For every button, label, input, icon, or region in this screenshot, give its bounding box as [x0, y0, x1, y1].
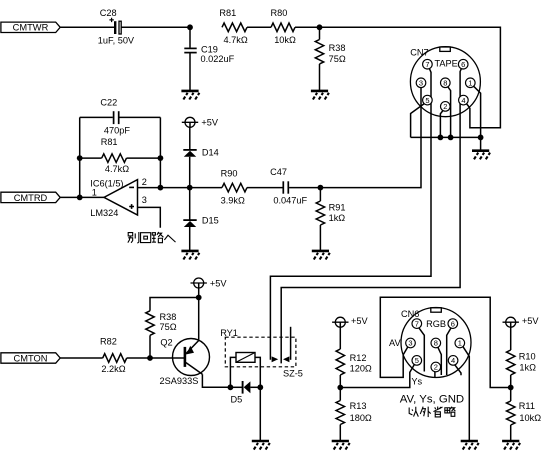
wire C28 to node A — [121, 26, 190, 28]
wire coil right lead — [255, 357, 260, 387]
capacitor C28 — [109, 18, 121, 34]
svg-text:3: 3 — [419, 79, 423, 88]
net tag CMTRD — [1, 192, 60, 202]
wire R90 to C47 — [247, 187, 283, 189]
svg-text:R80: R80 — [271, 8, 288, 18]
svg-text:R81: R81 — [219, 8, 236, 18]
svg-text:10kΩ: 10kΩ — [519, 413, 541, 423]
resistor R11 — [507, 401, 515, 425]
node +5V rail junction — [196, 295, 202, 301]
wire CN7 pin6 to relay contact B — [281, 68, 462, 364]
relay contact arrow C — [283, 356, 289, 362]
svg-text:CN7: CN7 — [410, 48, 428, 58]
svg-text:RGB: RGB — [426, 319, 446, 329]
junction pin8 bus — [448, 135, 454, 141]
wire CN6 pin7 stub — [418, 327, 424, 371]
svg-text:2.2kΩ: 2.2kΩ — [101, 364, 125, 374]
svg-text:C28: C28 — [100, 8, 117, 18]
svg-text:CMTON: CMTON — [14, 353, 48, 363]
svg-text:R91: R91 — [329, 203, 346, 213]
wire CN6 pin2 stub — [434, 371, 436, 378]
CN7 pin 2 — [441, 102, 451, 112]
svg-text:R38: R38 — [160, 312, 177, 322]
junction pin1 bus — [478, 135, 484, 141]
wire R13 to ground — [339, 425, 341, 442]
resistor R12 — [336, 349, 344, 375]
svg-text:R12: R12 — [350, 353, 367, 363]
wire C22 right to feedback — [120, 116, 161, 118]
svg-text:8: 8 — [434, 339, 438, 348]
CN6 pin 3 — [406, 338, 416, 348]
wire AV route box — [380, 297, 510, 387]
wire +5V symbol down — [198, 288, 200, 298]
wire CN7 pin2 to bus — [440, 110, 443, 138]
resistor R81 feedback — [102, 154, 127, 163]
svg-text:AV: AV — [389, 338, 401, 348]
svg-text:D5: D5 — [231, 394, 243, 404]
wire AV diagonal to pin3 — [403, 346, 408, 355]
power +5V symbol R10 — [503, 317, 519, 328]
svg-text:CMTWR: CMTWR — [13, 23, 49, 33]
svg-text:2: 2 — [443, 102, 447, 111]
op-amp U1 IC6(1/5) LM324 — [104, 180, 138, 215]
wire CN7 pin8 to bus — [447, 86, 450, 137]
svg-text:C47: C47 — [270, 167, 287, 177]
svg-text:R13: R13 — [350, 401, 367, 411]
wire R38 to ground — [319, 64, 321, 91]
wire CN7 pin4 stub — [466, 103, 470, 108]
svg-text:+5V: +5V — [210, 278, 227, 288]
CN6 pin 4 — [448, 356, 458, 366]
svg-text:7: 7 — [425, 60, 429, 69]
svg-text:470pF: 470pF — [104, 126, 130, 136]
svg-text:AV, Ys, GND: AV, Ys, GND — [400, 393, 464, 405]
wire CMTRD to op-amp output — [60, 196, 104, 198]
svg-text:1kΩ: 1kΩ — [329, 213, 346, 223]
node B junction — [317, 24, 323, 30]
capacitor C19 — [184, 48, 196, 52]
CN7 pin 4 — [459, 95, 469, 105]
node D5 right — [257, 384, 263, 390]
wire feedback left vertical — [79, 117, 81, 197]
svg-text:RY1: RY1 — [220, 328, 238, 338]
wire CN7 pin5 to bus — [411, 103, 426, 137]
CN7 pin 3 — [416, 78, 426, 88]
wire Ys route — [340, 364, 414, 387]
node D junction R91 — [318, 185, 324, 191]
wire CMTON to R82 — [60, 357, 102, 359]
resistor R38 bottom — [146, 311, 154, 335]
wire +5V to D14 — [189, 127, 191, 150]
svg-text:10kΩ: 10kΩ — [274, 35, 296, 45]
resistor R38 top — [315, 40, 323, 64]
node pin2 feedback junction — [158, 185, 164, 191]
svg-text:180Ω: 180Ω — [350, 413, 372, 423]
wire R80 to node B — [295, 26, 320, 28]
CN7 pin 7 — [423, 59, 433, 69]
wire R81-R80 — [247, 26, 271, 28]
resistor R80 — [271, 23, 295, 32]
resistor R91 — [316, 201, 324, 225]
svg-text:1: 1 — [458, 339, 462, 348]
net tag CMTON — [1, 353, 60, 363]
wire relay contact C stub — [290, 327, 292, 360]
svg-text:D14: D14 — [202, 147, 219, 157]
label igai shouryaku (others omitted) — [409, 407, 418, 417]
ground under C19 — [181, 91, 199, 100]
CN7 pin 8 — [441, 78, 451, 88]
connector CN7 notch — [440, 47, 451, 51]
wire +5V to R12 — [339, 327, 341, 349]
relay contact arrow A — [272, 356, 279, 362]
ground under D5 — [252, 441, 270, 450]
wire base node to R38b — [149, 335, 151, 358]
svg-text:CMTRD: CMTRD — [14, 193, 48, 203]
svg-text:+5V: +5V — [351, 316, 368, 326]
wire R10 to R11 — [510, 375, 512, 401]
diode D14 — [183, 149, 196, 151]
ground under R11 — [502, 441, 520, 450]
ground under D15 — [181, 251, 199, 260]
svg-text:R90: R90 — [221, 168, 238, 178]
svg-text:5: 5 — [415, 356, 419, 365]
svg-text:1: 1 — [468, 79, 472, 88]
svg-text:+5V: +5V — [522, 316, 539, 326]
ground under R38 top — [311, 91, 329, 100]
wire C19 to ground — [189, 53, 191, 91]
svg-text:R82: R82 — [100, 336, 117, 346]
svg-text:LM324: LM324 — [90, 208, 118, 218]
wire R38b to +5V rail — [150, 298, 199, 311]
node Ys divider — [337, 385, 343, 391]
wire node C to D15 — [189, 188, 191, 221]
resistor R13 — [336, 401, 344, 425]
svg-text:R38: R38 — [329, 43, 346, 53]
CN6 pin 6 — [448, 319, 458, 329]
svg-text:4: 4 — [451, 356, 455, 365]
CN7 pin 6 — [458, 59, 468, 69]
wire node D to R91 — [319, 188, 321, 201]
wire CN7 pin1 to bus — [473, 85, 481, 137]
svg-text:2SA933S: 2SA933S — [160, 376, 199, 386]
node base junction — [147, 355, 153, 361]
wire collector to D5 row — [202, 374, 230, 387]
wire CN6 pin1 to ground — [463, 347, 469, 441]
wire CN7 pin7 to relay contact A — [270, 68, 431, 360]
svg-text:4.7kΩ: 4.7kΩ — [105, 164, 129, 174]
CN7 pin 5 — [423, 95, 433, 105]
wire to R81 feedback — [80, 157, 102, 159]
resistor R10 — [507, 350, 515, 375]
wire +5V to R10 — [510, 327, 512, 350]
node C diode junction — [187, 185, 193, 191]
svg-text:0.047uF: 0.047uF — [273, 196, 307, 206]
svg-text:75Ω: 75Ω — [160, 322, 177, 332]
svg-text:TAPE: TAPE — [435, 58, 458, 68]
label betsukairo (to other circuit) — [128, 232, 139, 243]
junction pin2 bus — [438, 135, 444, 141]
svg-text:4: 4 — [461, 96, 465, 105]
svg-text:0.022uF: 0.022uF — [201, 54, 235, 64]
wire CN6 pin4 stub — [455, 364, 462, 375]
connector CN6 body — [401, 308, 471, 378]
capacitor C47 — [283, 181, 288, 193]
node feedback right R81 — [158, 155, 164, 161]
svg-text:Ys: Ys — [411, 376, 422, 386]
wire feedback right vertical — [159, 117, 161, 187]
diode D5 — [243, 381, 251, 394]
svg-text:D15: D15 — [202, 215, 219, 225]
wire CN7 ground bus — [411, 136, 481, 138]
svg-text:1: 1 — [92, 187, 97, 197]
wire R12 to R13 — [339, 375, 341, 401]
wire op-amp pin2 line — [138, 187, 223, 189]
wire to D5 cathode — [230, 386, 242, 388]
ground under R91 — [312, 251, 330, 260]
CN6 pin 7 — [412, 319, 422, 329]
wire R81 feedback right — [127, 157, 161, 159]
svg-text:R10: R10 — [519, 352, 536, 362]
wire node B to CN7 pin4 route — [320, 27, 501, 127]
svg-text:Q2: Q2 — [160, 337, 172, 347]
svg-text:120Ω: 120Ω — [350, 363, 372, 373]
node D5 left — [228, 384, 234, 390]
transistor Q2 2SA933S — [173, 339, 210, 376]
power +5V symbol op-amp — [182, 117, 198, 128]
svg-text:75Ω: 75Ω — [329, 54, 346, 64]
diode D15 — [183, 219, 196, 221]
ground under CN6 — [461, 441, 479, 450]
svg-text:3: 3 — [142, 195, 147, 205]
wire bus to ground — [480, 137, 482, 150]
resistor R81 top — [222, 23, 247, 32]
relay RY1 dashed box — [225, 337, 296, 367]
node A junction — [187, 24, 193, 30]
svg-text:2: 2 — [142, 177, 147, 187]
node feedback left R81 — [77, 155, 83, 161]
CN6 pin 5 — [412, 356, 422, 366]
svg-text:2: 2 — [434, 363, 438, 372]
CN6 pin 1 — [455, 338, 465, 348]
svg-text:5: 5 — [425, 96, 429, 105]
wire coil left lead — [230, 357, 236, 387]
relay coil — [236, 353, 255, 363]
wire node A down to C19 — [189, 27, 191, 47]
resistor R82 — [103, 354, 127, 363]
wire node B to R38 — [319, 27, 321, 39]
svg-text:4.7kΩ: 4.7kΩ — [224, 35, 248, 45]
net tag CMTWR — [1, 22, 60, 32]
svg-text:CN6: CN6 — [401, 309, 419, 319]
svg-text:+5V: +5V — [201, 118, 218, 128]
svg-text:R81: R81 — [101, 137, 118, 147]
svg-text:8: 8 — [443, 79, 447, 88]
wire emitter vertical — [198, 298, 200, 341]
CN7 pin 1 — [466, 78, 476, 88]
wire CMTWR to C28 — [60, 26, 114, 28]
svg-text:6: 6 — [461, 60, 465, 69]
power +5V symbol R12 — [332, 317, 348, 328]
svg-text:C22: C22 — [100, 97, 117, 107]
wire R11 to ground — [510, 425, 512, 441]
wire op-amp pin3 line — [138, 207, 161, 227]
ground under R13 — [332, 441, 350, 450]
svg-text:SZ-5: SZ-5 — [283, 369, 303, 379]
capacitor C22 — [114, 111, 119, 124]
wire R91 to ground — [319, 225, 321, 251]
svg-text:1uF, 50V: 1uF, 50V — [98, 35, 135, 45]
connector CN7 body — [410, 47, 480, 117]
svg-text:6: 6 — [451, 319, 455, 328]
resistor R90 — [222, 183, 247, 192]
CN6 pin 8 — [431, 338, 441, 348]
svg-text:C19: C19 — [201, 44, 218, 54]
wire D5 node to ground — [259, 387, 261, 441]
wire CN6 pin8 stub — [437, 346, 441, 375]
wire node D to CN7 pin3 — [320, 86, 421, 187]
wire R82 to Q2 base — [127, 357, 185, 359]
wire D15 to ground — [189, 227, 191, 251]
wire D5 anode to node — [250, 386, 260, 388]
ground under CN7 — [472, 151, 490, 160]
svg-text:7: 7 — [415, 319, 419, 328]
svg-text:3.9kΩ: 3.9kΩ — [221, 195, 245, 205]
power +5V symbol Q2 — [191, 278, 207, 289]
wire C47 to node D — [289, 187, 320, 189]
wire D14 to node C — [189, 157, 191, 188]
wire CN6 pin6 stub — [447, 327, 452, 375]
wire to C22 left — [80, 116, 113, 118]
node AV divider — [508, 385, 514, 391]
svg-text:R11: R11 — [519, 401, 535, 411]
CN6 pin 2 — [431, 362, 441, 372]
node output junction — [77, 195, 83, 201]
connector CN6 notch — [431, 308, 442, 312]
svg-text:3: 3 — [408, 339, 412, 348]
svg-text:1kΩ: 1kΩ — [519, 363, 536, 373]
